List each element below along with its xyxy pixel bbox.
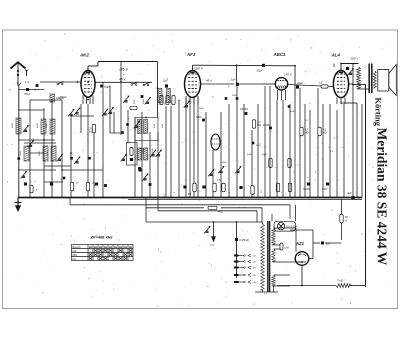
svg-text:70pF: 70pF bbox=[24, 92, 31, 96]
svg-text:4μF: 4μF bbox=[347, 191, 352, 195]
wire AF3 top cap 280V bbox=[192, 65, 194, 70]
svg-text:5000: 5000 bbox=[322, 189, 328, 191]
ground symbol bbox=[17, 198, 19, 210]
capacitor 5000pF out bbox=[326, 183, 329, 186]
svg-text:280 V: 280 V bbox=[350, 57, 360, 61]
svg-text:60pF: 60pF bbox=[262, 154, 267, 156]
svg-text:40Ω: 40Ω bbox=[218, 210, 224, 214]
capacitor anode AF3 bbox=[236, 97, 239, 100]
svg-text:Körting: Körting bbox=[374, 98, 383, 127]
resistor 0.3M bbox=[252, 120, 255, 129]
coil IF1 b bbox=[144, 120, 148, 134]
svg-text:25μF: 25μF bbox=[256, 145, 262, 147]
wire right verticals bbox=[264, 86, 266, 198]
transformer core bbox=[267, 221, 269, 292]
trimmer IF2 out bbox=[144, 178, 147, 180]
capacitor IF2 out bbox=[138, 169, 141, 172]
capacitor 50pF bbox=[262, 64, 265, 67]
wire link mid bbox=[30, 152, 44, 154]
resistor bias 2 bbox=[86, 182, 89, 191]
wire middle verticals bbox=[141, 112, 143, 198]
capacitor screen AF3 bbox=[225, 97, 228, 100]
table wave band bbox=[72, 245, 134, 261]
capacitor 1500pF bbox=[245, 112, 248, 115]
svg-text:0.25mF: 0.25mF bbox=[240, 238, 250, 242]
svg-text:1MΩ: 1MΩ bbox=[199, 108, 204, 110]
resistor det 3 bbox=[222, 183, 225, 192]
trimmer det shield bbox=[122, 158, 125, 160]
trimmer C-rf 2 bbox=[135, 125, 138, 127]
resistor audio 3 bbox=[276, 183, 279, 192]
svg-text:50000: 50000 bbox=[303, 189, 310, 191]
transformer primary bbox=[261, 224, 265, 290]
capacitor if 1 bbox=[138, 167, 141, 170]
wire bus verticals left bbox=[29, 100, 31, 198]
svg-text:6V 0,65A: 6V 0,65A bbox=[287, 225, 298, 229]
capacitor 70pF bbox=[19, 89, 44, 91]
resistor decoupling a bbox=[160, 96, 163, 105]
trimmer IF2 b bbox=[157, 154, 160, 156]
capacitor coupling al4 bbox=[269, 127, 272, 130]
trimmer AF3 grid bbox=[185, 105, 188, 107]
wire AL4 anode bbox=[340, 64, 342, 71]
svg-text:[280 V: [280 V bbox=[193, 67, 204, 71]
trimmer det 3 bbox=[237, 170, 240, 172]
trimmer padder 3 bbox=[76, 161, 79, 163]
tube AZ1 bbox=[295, 252, 309, 266]
capacitor 5000-1 bbox=[24, 183, 27, 186]
resistor det 4 bbox=[251, 186, 254, 195]
svg-text:MΩ: MΩ bbox=[257, 124, 261, 127]
resistor 1M box bbox=[130, 106, 137, 109]
capacitor junction x18 bbox=[18, 157, 21, 160]
coil L5 bbox=[43, 146, 48, 161]
svg-text:ABC1: ABC1 bbox=[273, 52, 287, 57]
wire speaker return bbox=[359, 88, 370, 90]
svg-text:100μH: 100μH bbox=[56, 96, 64, 100]
wire AF3 plate bbox=[201, 83, 235, 85]
tube AF3 bbox=[185, 71, 201, 98]
trimmer padder 2 bbox=[58, 158, 61, 160]
wire ABC1 out bbox=[288, 85, 334, 87]
wire AZ1 anode top bbox=[295, 228, 297, 252]
wire screen drop bbox=[236, 65, 238, 84]
wire rail 2 bbox=[146, 207, 204, 209]
capacitor coupling mid bbox=[202, 119, 205, 122]
switch contact IF input bbox=[131, 84, 133, 86]
svg-text:ZF=468 kHz: ZF=468 kHz bbox=[90, 235, 113, 240]
svg-text:AL4: AL4 bbox=[331, 53, 341, 58]
svg-text:7 kΩ: 7 kΩ bbox=[337, 279, 344, 283]
output transformer secondary bbox=[373, 71, 376, 88]
wire antenna down-lead bbox=[18, 86, 20, 198]
resistor bias 1 bbox=[70, 182, 73, 191]
wire rf shorts bbox=[80, 104, 82, 133]
capacitor 0.25mF bbox=[236, 221, 238, 223]
svg-text:40μF: 40μF bbox=[297, 81, 303, 85]
capacitor agc junction bbox=[63, 177, 66, 180]
coil choke a bbox=[158, 89, 162, 103]
shield box detector bbox=[127, 143, 138, 166]
trimmer ant coil 2 bbox=[29, 144, 32, 146]
trimmer if input bbox=[146, 101, 149, 103]
capacitor det 3 bbox=[239, 186, 242, 189]
capacitor 40uF bbox=[296, 85, 299, 88]
transformer secondary HT bbox=[272, 228, 275, 245]
svg-text:U/A: U/A bbox=[285, 247, 290, 250]
capacitor 80pF bbox=[36, 84, 39, 87]
svg-text:[ 85 V: [ 85 V bbox=[283, 73, 293, 77]
resistor det shield bbox=[130, 148, 133, 156]
resistor U/A bbox=[280, 243, 283, 250]
resistor audio 2 bbox=[288, 159, 291, 168]
resistor 25k bbox=[92, 124, 95, 133]
resistor 7k bbox=[336, 284, 350, 288]
coil L3 bbox=[50, 119, 55, 134]
resistor output choke bbox=[357, 67, 361, 89]
ground bus bbox=[18, 197, 362, 199]
wire mains top bbox=[146, 221, 262, 223]
capacitor det 2 bbox=[202, 186, 205, 189]
wire ABC1 top drop bbox=[294, 67, 296, 97]
coil L2 bbox=[41, 119, 46, 134]
svg-text:285 V: 285 V bbox=[118, 68, 129, 72]
svg-text:1 A: 1 A bbox=[25, 80, 29, 84]
antenna bbox=[11, 62, 26, 68]
svg-text:4μF: 4μF bbox=[326, 242, 331, 246]
trimmer padder 1 bbox=[22, 175, 25, 177]
trimmer det 1 bbox=[210, 173, 213, 175]
transformer secondary heater 2 bbox=[272, 275, 275, 286]
svg-text:Meridian 38 SE 4244 W: Meridian 38 SE 4244 W bbox=[375, 128, 390, 266]
capacitor 4uF bus bbox=[351, 196, 354, 199]
svg-text:5000: 5000 bbox=[196, 116, 202, 119]
svg-text:MΩ: MΩ bbox=[323, 132, 327, 135]
capacitor if input bbox=[141, 95, 144, 98]
capacitor det shield bbox=[130, 158, 133, 161]
svg-text:10000: 10000 bbox=[263, 125, 270, 127]
wire AK2 top cap bbox=[87, 66, 89, 71]
wire B+ frame bbox=[309, 258, 313, 260]
coil 6.3uH bbox=[50, 94, 55, 102]
capacitor 25uF bbox=[252, 142, 255, 145]
wire rail2 drop bbox=[261, 208, 263, 222]
svg-text:50μF: 50μF bbox=[257, 69, 264, 73]
trimmer mains bbox=[206, 230, 209, 232]
wire rail 3 bbox=[158, 210, 257, 212]
resistor 0.2M bbox=[300, 127, 303, 136]
wire ABC1 grid bbox=[262, 83, 275, 85]
capacitor sw b bbox=[88, 157, 91, 160]
svg-text:50pF: 50pF bbox=[290, 111, 295, 113]
svg-text:26300: 26300 bbox=[148, 154, 150, 160]
junction dots bbox=[43, 139, 45, 141]
shield box IF1 bbox=[135, 118, 158, 141]
svg-text:48 V: 48 V bbox=[119, 78, 126, 82]
coil L6 bbox=[51, 146, 56, 161]
svg-text:26300: 26300 bbox=[135, 154, 137, 160]
resistor 40 ohm bbox=[208, 206, 217, 209]
pilot lamp 6V 0.65A bbox=[274, 221, 296, 231]
resistor det 2 bbox=[213, 183, 216, 192]
wire to divider bbox=[350, 285, 366, 287]
wire AL4 cathode bbox=[349, 83, 353, 85]
coil choke b bbox=[167, 89, 171, 103]
wire output step bbox=[340, 101, 342, 104]
tube AL4 bbox=[333, 70, 348, 97]
capacitor if 2 bbox=[149, 183, 152, 186]
svg-text:LA: LA bbox=[211, 243, 214, 247]
svg-text:Ω: Ω bbox=[345, 219, 347, 223]
capacitor tone bbox=[346, 67, 349, 70]
svg-text:26500: 26500 bbox=[143, 147, 145, 154]
wire grid loop AL4 bbox=[333, 64, 335, 68]
svg-text:MW: MW bbox=[73, 254, 78, 257]
coil IF2 a bbox=[138, 148, 142, 160]
tube magic eye bbox=[211, 134, 220, 150]
trimmer C-ant 2 bbox=[109, 111, 112, 113]
wire AF3 pins bbox=[185, 96, 187, 104]
trimmer C-osc 2 bbox=[76, 112, 79, 114]
svg-text:AZ1: AZ1 bbox=[295, 241, 305, 246]
capacitor det 1 bbox=[183, 186, 186, 189]
resistor 60 ohm bbox=[340, 214, 343, 223]
resistor decoupling b bbox=[166, 96, 169, 105]
svg-text:26300: 26300 bbox=[152, 147, 154, 154]
resistor agc 7 bbox=[30, 185, 33, 193]
svg-text:48 V: 48 V bbox=[206, 79, 213, 83]
trimmer det 2 bbox=[220, 170, 223, 172]
aux antenna terminal bbox=[26, 70, 28, 76]
wire left links bbox=[18, 109, 44, 111]
capacitor bias 3 bbox=[104, 184, 107, 187]
capacitor sw a bbox=[70, 157, 73, 160]
trimmer C-osc 1 bbox=[70, 113, 73, 115]
switch contact antenna bbox=[57, 83, 59, 85]
svg-text:Bereich: Bereich bbox=[73, 246, 82, 249]
resistor audio 1 bbox=[269, 159, 272, 168]
wire rail 1 bbox=[70, 204, 290, 206]
wire AL4 pins bbox=[336, 98, 338, 105]
tube ABC1 bbox=[275, 78, 287, 90]
coil L1 bbox=[16, 118, 21, 134]
wire 285V bus bbox=[98, 61, 158, 63]
svg-text:MΩ: MΩ bbox=[305, 132, 309, 135]
capacitor rf a bbox=[126, 123, 129, 126]
svg-text:AK2: AK2 bbox=[79, 53, 89, 58]
resistor audio 4 bbox=[288, 183, 291, 192]
capacitor 4uF psu bbox=[321, 242, 324, 245]
wire AK2 grid bbox=[40, 81, 81, 83]
capacitor 5000-3 bbox=[95, 183, 98, 186]
capacitor blocking bbox=[100, 85, 103, 88]
wire bottom return bbox=[262, 290, 264, 292]
resistor decoupling c bbox=[172, 96, 175, 105]
svg-text:2μF: 2μF bbox=[230, 78, 236, 82]
capacitor 5000-2 bbox=[50, 183, 53, 186]
voltage selector taps bbox=[234, 255, 239, 257]
svg-text:60pF: 60pF bbox=[247, 154, 252, 156]
coil IF1 a bbox=[138, 120, 142, 134]
trimmer IF2 a bbox=[152, 154, 155, 156]
title block divider bbox=[365, 85, 367, 288]
trimmer tone bbox=[349, 72, 352, 74]
svg-text:2μF: 2μF bbox=[162, 79, 168, 83]
resistor det 1 bbox=[193, 183, 196, 192]
resistor 1.5 ohm heater bbox=[321, 85, 328, 88]
coil IF2 b bbox=[144, 148, 148, 160]
capacitor rf b bbox=[121, 131, 124, 134]
trimmer ant coil bbox=[24, 129, 27, 131]
trimmer C-ant 1 bbox=[104, 113, 107, 115]
trimmer C-rf 1 bbox=[125, 100, 128, 102]
svg-text:1,5: 1,5 bbox=[319, 82, 323, 85]
resistor 0.5M bbox=[318, 127, 321, 136]
svg-text:1500pF: 1500pF bbox=[240, 108, 249, 111]
wire AK2 pins bbox=[82, 96, 84, 105]
svg-text:kΩ: kΩ bbox=[89, 130, 92, 133]
wire HT leads bbox=[274, 227, 297, 229]
capacitor abc1 pin bbox=[288, 105, 291, 108]
wire ABC1 pins bbox=[277, 90, 279, 100]
transformer secondary heater 1 bbox=[272, 249, 275, 262]
capacitor 10uF bbox=[307, 183, 310, 186]
tube AK2 bbox=[81, 70, 95, 97]
wire AK2 output bbox=[95, 81, 152, 83]
wire AZ1 out bbox=[301, 265, 303, 285]
wire pickup branch bbox=[213, 221, 215, 223]
coil L4 bbox=[24, 146, 29, 161]
svg-text:AF3: AF3 bbox=[186, 52, 196, 57]
speaker bbox=[378, 70, 389, 92]
output transformer core bbox=[368, 64, 370, 94]
